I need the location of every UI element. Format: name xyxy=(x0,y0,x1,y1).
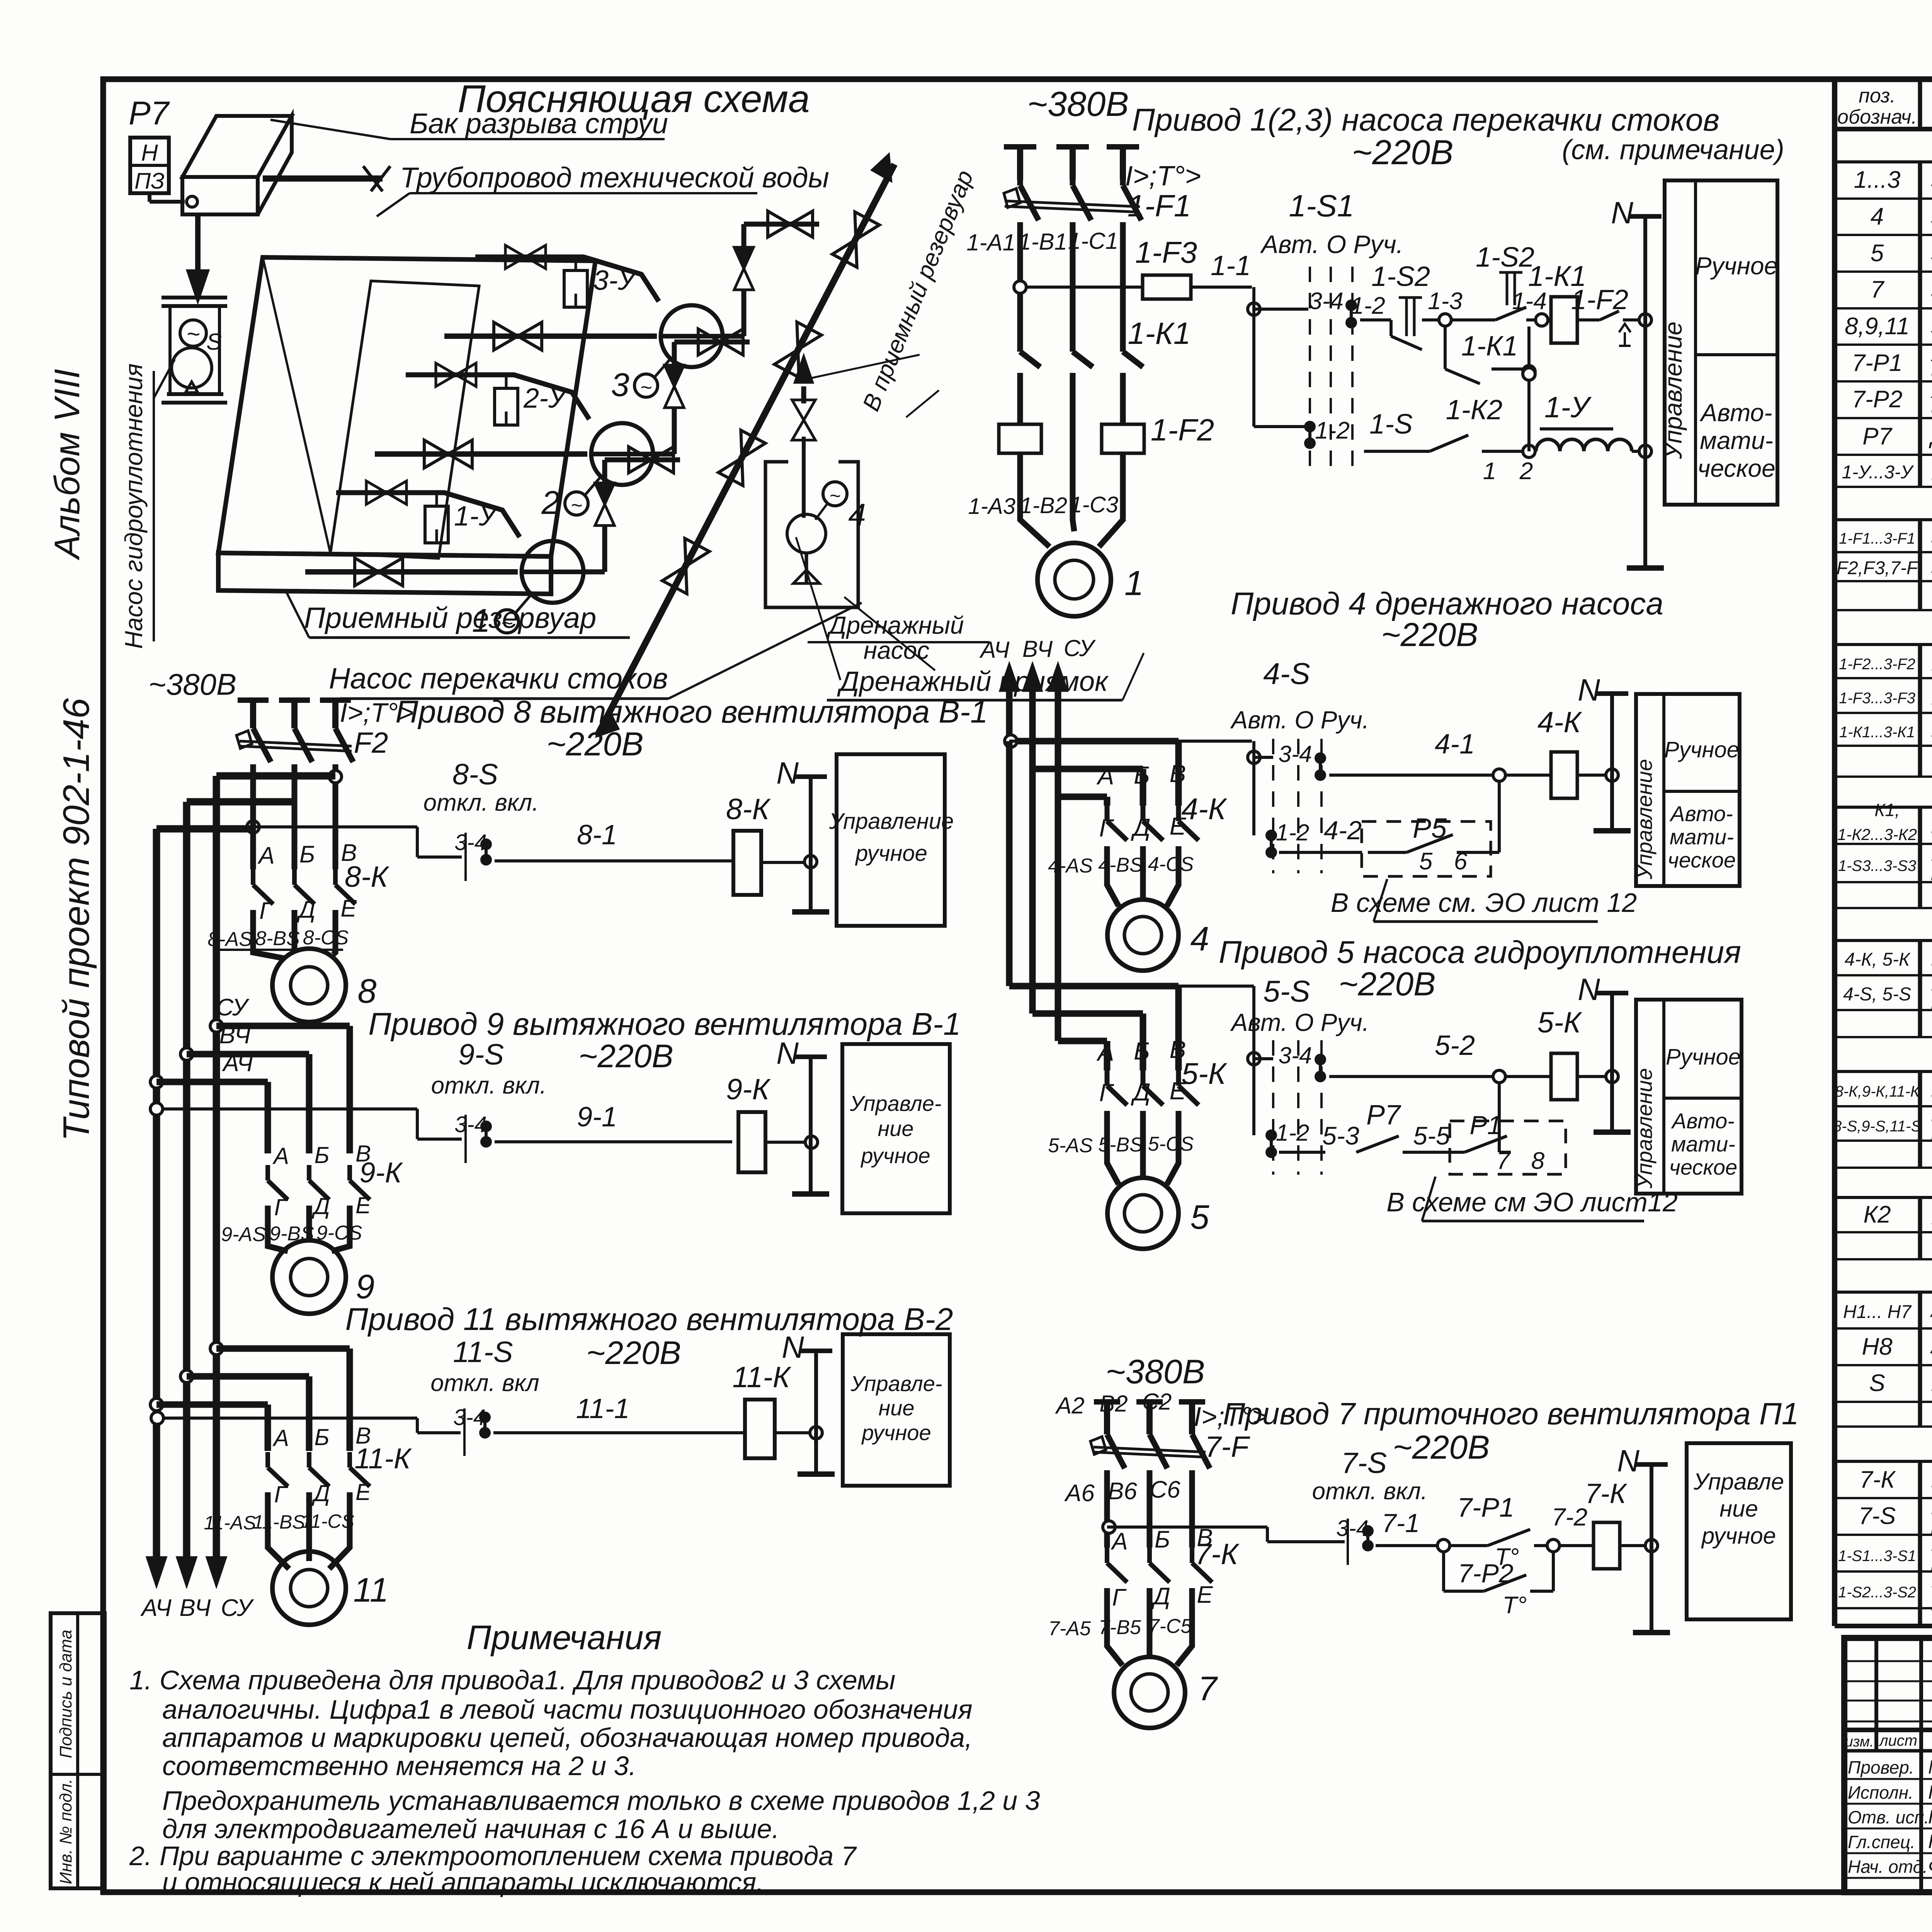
svg-text:~: ~ xyxy=(186,321,200,347)
bus AC BC CY vertical xyxy=(140,776,254,1621)
contactor contacts 1-K1 xyxy=(1020,255,1190,375)
svg-text:ческое: ческое xyxy=(1669,1155,1737,1179)
table row 1-S2...3-S2 xyxy=(1838,1564,1932,1616)
phase labels 1-A1 1-B1 1-C1 xyxy=(966,228,1118,255)
svg-text:С6: С6 xyxy=(1150,1476,1180,1503)
N line privod 11 xyxy=(782,1330,835,1474)
privod 4 power feed xyxy=(1005,715,1179,806)
svg-text:Е: Е xyxy=(355,1479,371,1505)
table row 1-F1...3-F1 xyxy=(1839,522,1932,551)
svg-text:2: 2 xyxy=(541,485,560,521)
svg-text:и относящиеся к ней аппара: и относящиеся к ней аппараты исключаются… xyxy=(162,1867,764,1897)
motor 8 leads xyxy=(207,910,349,958)
breaker F2 xyxy=(236,697,414,806)
svg-text:Н8: Н8 xyxy=(1862,1333,1893,1360)
svg-text:Б: Б xyxy=(1134,761,1150,789)
svg-text:7-А5: 7-А5 xyxy=(1048,1617,1091,1640)
svg-text:~220В: ~220В xyxy=(1338,966,1435,1003)
svg-text:1-S2: 1-S2 xyxy=(1476,242,1534,273)
timing contact 1-K2 and solenoid 1-U xyxy=(1364,368,1651,485)
svg-text:7-К: 7-К xyxy=(1585,1478,1628,1509)
svg-text:Д: Д xyxy=(296,896,316,923)
svg-text:Управле-: Управле- xyxy=(849,1091,941,1116)
svg-text:Д: Д xyxy=(1131,1078,1150,1106)
privod 5 power feed xyxy=(1009,741,1179,1070)
table row Р7 xyxy=(1862,422,1932,452)
breaker 7-F xyxy=(1090,1401,1268,1497)
svg-text:7: 7 xyxy=(1198,1669,1218,1708)
svg-text:1-F3...3-F3: 1-F3...3-F3 xyxy=(1839,690,1915,707)
svg-text:1-S2...3-S2: 1-S2...3-S2 xyxy=(1838,1584,1916,1601)
wire 7-1 and thermal contacts xyxy=(1376,1492,1592,1619)
svg-text:Д: Д xyxy=(1151,1583,1170,1610)
svg-text:~380В: ~380В xyxy=(1027,85,1129,124)
table row S xyxy=(1869,1367,1932,1401)
table row 4-К, 5-К xyxy=(1845,944,1932,973)
table row F2,F3,7-F xyxy=(1837,553,1932,582)
svg-text:СУ: СУ xyxy=(221,1595,254,1621)
pump 2 xyxy=(541,423,653,521)
svg-text:9-S: 9-S xyxy=(458,1038,504,1071)
privod 8 phase supply xyxy=(238,700,351,728)
svg-text:4-1: 4-1 xyxy=(1435,729,1475,760)
svg-text:Е: Е xyxy=(340,895,357,922)
wire 9-1 xyxy=(495,1102,732,1142)
svg-text:1-2: 1-2 xyxy=(1350,293,1385,319)
N line privod 5 xyxy=(1578,972,1631,1132)
switch 11-S xyxy=(151,1405,491,1456)
switch 7-S xyxy=(1103,1447,1427,1565)
aux contact 1-K1 xyxy=(1445,327,1535,384)
coil 7-K xyxy=(1585,1478,1658,1569)
svg-text:N: N xyxy=(782,1330,804,1364)
table row 5 xyxy=(1871,231,1932,275)
svg-text:Авт. О Руч.: Авт. О Руч. xyxy=(1260,230,1403,259)
svg-text:11-S: 11-S xyxy=(453,1336,513,1369)
svg-text:откл. вкл.: откл. вкл. xyxy=(423,789,539,816)
svg-text:4-2: 4-2 xyxy=(1324,816,1362,845)
svg-text:Педан: Педан xyxy=(1928,1781,1932,1803)
svg-text:1-F1...3-F1: 1-F1...3-F1 xyxy=(1839,530,1915,547)
privod 4 title xyxy=(1231,586,1663,653)
riser to receiving reservoir xyxy=(597,155,895,736)
svg-text:Р7: Р7 xyxy=(1862,423,1893,450)
svg-text:А: А xyxy=(257,842,274,869)
svg-text:4-К, 5-К: 4-К, 5-К xyxy=(1845,949,1911,970)
svg-text:1-С1: 1-С1 xyxy=(1068,228,1118,254)
svg-text:Трубопровод технической воды: Трубопровод технической воды xyxy=(400,162,829,194)
svg-text:Авт. О Руч.: Авт. О Руч. xyxy=(1230,706,1369,734)
privod 1 title xyxy=(1027,85,1784,172)
reservoir label xyxy=(286,591,630,638)
solenoid valve 2-У xyxy=(406,363,589,425)
svg-text:~: ~ xyxy=(501,612,513,634)
svg-text:ВЧ: ВЧ xyxy=(180,1595,211,1621)
N line privod 1 xyxy=(1611,196,1664,568)
coil 5-K xyxy=(1505,1006,1618,1100)
svg-text:7-Р1: 7-Р1 xyxy=(1457,1492,1514,1522)
contactor contacts 9-K xyxy=(268,1141,403,1220)
svg-text:(см. примечание): (см. примечание) xyxy=(1562,134,1784,165)
table row 1-F2...3-F2 xyxy=(1839,641,1932,683)
bus tap labels privod 9 xyxy=(216,994,253,1077)
thermal relay 1-F2 xyxy=(999,373,1214,479)
privod 11 title xyxy=(345,1302,953,1396)
bus arrows to privod 4/5 xyxy=(979,635,1096,715)
notes text xyxy=(129,1665,1040,1897)
motor 1 xyxy=(1020,479,1144,616)
relay contacts P7 P1 xyxy=(1279,1083,1566,1174)
svg-text:изм.: изм. xyxy=(1845,1734,1874,1750)
svg-text:~: ~ xyxy=(571,494,582,517)
svg-text:1-2: 1-2 xyxy=(1276,820,1310,845)
pump 1 xyxy=(472,541,583,639)
svg-text:5-S: 5-S xyxy=(1263,974,1310,1008)
table row 7 xyxy=(1871,268,1932,312)
svg-text:Ручное: Ручное xyxy=(1666,1044,1741,1070)
svg-text:1-У: 1-У xyxy=(1544,391,1592,424)
svg-text:А: А xyxy=(272,1143,289,1169)
svg-text:Дренажный: Дренажный xyxy=(827,611,964,639)
hydro pump label xyxy=(120,359,175,649)
svg-text:СУ: СУ xyxy=(1064,635,1096,661)
svg-text:В6: В6 xyxy=(1108,1478,1137,1505)
selector 4-S xyxy=(1009,656,1369,873)
svg-text:~220В: ~220В xyxy=(1352,133,1454,172)
svg-text:Р7: Р7 xyxy=(129,95,170,132)
svg-text:5: 5 xyxy=(1419,848,1433,875)
svg-text:4-К: 4-К xyxy=(1537,706,1583,739)
svg-text:8-1: 8-1 xyxy=(577,820,617,850)
svg-text:5: 5 xyxy=(1190,1198,1210,1236)
svg-text:5-2: 5-2 xyxy=(1435,1030,1475,1061)
table row 8-К,9-К,11-К xyxy=(1835,1075,1932,1104)
svg-text:ние: ние xyxy=(1719,1496,1758,1522)
svg-text:4: 4 xyxy=(1871,203,1884,230)
contactor contacts 11-K xyxy=(268,1423,412,1507)
svg-text:7-F: 7-F xyxy=(1205,1430,1250,1463)
svg-text:Б: Б xyxy=(299,841,315,868)
svg-text:1-К1: 1-К1 xyxy=(1461,331,1518,362)
svg-text:Привод 5 насоса гидроуплотне: Привод 5 насоса гидроуплотнения xyxy=(1219,935,1741,970)
svg-text:Е: Е xyxy=(1170,812,1187,840)
svg-text:7-2: 7-2 xyxy=(1552,1503,1588,1531)
privod 7 title xyxy=(1106,1352,1799,1466)
svg-text:Привод 8 вытяжного вентилято: Привод 8 вытяжного вентилятора В-1 xyxy=(395,694,988,730)
svg-text:9-АS: 9-АS xyxy=(221,1223,266,1246)
svg-text:11-К: 11-К xyxy=(733,1361,792,1394)
N line privod 9 xyxy=(776,1036,829,1194)
discharge pipe pump 3 xyxy=(723,211,819,336)
wire 4-1 xyxy=(1329,729,1505,781)
parts table xyxy=(1835,79,1932,1626)
svg-text:Д: Д xyxy=(311,1480,330,1506)
svg-text:А6: А6 xyxy=(1064,1480,1095,1507)
table row 8-S,9-S,11-S xyxy=(1833,1102,1932,1145)
svg-text:Казаров: Казаров xyxy=(1928,1831,1932,1852)
hydro seal pump unit xyxy=(162,298,227,403)
table row 1-S3...3-S3 xyxy=(1838,841,1932,885)
svg-text:6: 6 xyxy=(1454,848,1468,875)
svg-text:N: N xyxy=(1617,1444,1639,1478)
svg-text:Примечания: Примечания xyxy=(467,1618,662,1656)
svg-text:8-К: 8-К xyxy=(726,793,771,826)
svg-text:8-К: 8-К xyxy=(345,861,390,893)
svg-text:I>;Т°>: I>;Т°> xyxy=(340,697,413,728)
svg-text:Е: Е xyxy=(1170,1077,1187,1105)
table row 1-У...3-У xyxy=(1842,449,1932,493)
svg-text:Г: Г xyxy=(259,898,274,924)
control box privod 7 xyxy=(1687,1443,1791,1619)
control box privod 4 xyxy=(1632,694,1740,886)
table row 1-К1...3-К1 xyxy=(1839,715,1932,745)
svg-text:4: 4 xyxy=(848,497,866,532)
svg-text:I>;Т°>: I>;Т°> xyxy=(1194,1401,1267,1432)
svg-text:1-А3: 1-А3 xyxy=(968,494,1015,519)
svg-text:11-АS: 11-АS xyxy=(204,1512,256,1534)
svg-text:1-К2...3-К2: 1-К2...3-К2 xyxy=(1837,825,1917,844)
privod 9 title xyxy=(368,1007,961,1099)
svg-text:Авт. О Руч.: Авт. О Руч. xyxy=(1230,1009,1369,1036)
svg-text:~380В: ~380В xyxy=(148,667,236,701)
svg-text:аппаратов и маркировки цепей,: аппаратов и маркировки цепей, обозначающ… xyxy=(162,1723,973,1753)
privod 4 contactor contacts 4-K xyxy=(1096,760,1228,848)
svg-text:1-У: 1-У xyxy=(454,501,499,532)
svg-text:Гл.спец.: Гл.спец. xyxy=(1848,1832,1915,1852)
see sheet note 5 xyxy=(1386,1177,1678,1221)
svg-text:1-К2: 1-К2 xyxy=(1446,395,1503,425)
table row К1,|1-К2...3-К2 xyxy=(1837,800,1932,844)
drainage pit xyxy=(765,462,858,607)
svg-text:откл. вкл.: откл. вкл. xyxy=(1312,1478,1428,1505)
svg-text:3-4: 3-4 xyxy=(454,830,487,855)
table row Н1... Н7 xyxy=(1843,1294,1932,1328)
svg-text:3-У: 3-У xyxy=(593,265,638,296)
svg-text:1-У...3-У: 1-У...3-У xyxy=(1842,462,1914,483)
svg-text:А2: А2 xyxy=(1055,1393,1084,1418)
svg-text:мати-: мати- xyxy=(1700,427,1773,454)
svg-text:А: А xyxy=(1096,762,1114,790)
table row 7-Р1 xyxy=(1852,345,1932,382)
table row 1-F3...3-F3 xyxy=(1839,679,1932,713)
svg-text:откл. вкл.: откл. вкл. xyxy=(431,1072,547,1099)
svg-text:Отв. исп.: Отв. исп. xyxy=(1848,1807,1929,1827)
svg-text:3-4: 3-4 xyxy=(1309,288,1344,315)
motor 9 leads xyxy=(221,1206,362,1251)
svg-text:Т°: Т° xyxy=(1503,1592,1527,1619)
svg-text:1-S2: 1-S2 xyxy=(1371,261,1430,292)
bottom-left inventory strip xyxy=(51,1613,105,1888)
svg-text:ческое: ческое xyxy=(1668,848,1736,872)
svg-text:7-С5: 7-С5 xyxy=(1148,1615,1192,1638)
svg-text:Авто-: Авто- xyxy=(1699,399,1772,427)
svg-text:Насос гидроуплотнения: Насос гидроуплотнения xyxy=(120,364,148,649)
svg-text:1-S1...3-S1: 1-S1...3-S1 xyxy=(1838,1548,1916,1565)
svg-text:Пономарева: Пономарева xyxy=(1928,1806,1932,1828)
contactor contacts 8-K xyxy=(253,806,389,924)
pump 3 xyxy=(611,305,723,403)
svg-text:1-А1: 1-А1 xyxy=(966,230,1015,255)
control box privod 1 xyxy=(1659,180,1778,505)
svg-text:Б: Б xyxy=(314,1424,329,1450)
svg-text:8-S,9-S,11-S: 8-S,9-S,11-S xyxy=(1833,1118,1922,1135)
motor 11 leads xyxy=(204,1492,354,1569)
svg-text:1...3: 1...3 xyxy=(1854,167,1901,193)
svg-text:4-К: 4-К xyxy=(1181,792,1227,826)
contactor contacts 7-K xyxy=(1107,1524,1240,1611)
tank (bak razryva strui) xyxy=(182,116,292,214)
svg-text:3-4: 3-4 xyxy=(454,1112,487,1137)
motor leads labels xyxy=(968,492,1118,519)
table row К2 xyxy=(1863,1193,1932,1236)
svg-text:Н: Н xyxy=(141,140,158,166)
svg-text:~220В: ~220В xyxy=(546,726,643,763)
bus taps privod 9 xyxy=(150,1020,350,1153)
svg-text:Г: Г xyxy=(1112,1584,1127,1611)
svg-text:Инв. № подл.: Инв. № подл. xyxy=(56,1779,75,1884)
svg-text:11-К: 11-К xyxy=(354,1442,412,1475)
svg-text:7-Р2: 7-Р2 xyxy=(1852,386,1903,413)
motor 4 leads xyxy=(1048,846,1194,906)
svg-text:Управле: Управле xyxy=(1693,1469,1784,1495)
svg-text:~220В: ~220В xyxy=(1381,616,1478,653)
svg-text:11-ВS: 11-ВS xyxy=(253,1511,305,1533)
table header xyxy=(1837,78,1932,134)
svg-text:I>;Т°>: I>;Т°> xyxy=(1125,161,1201,192)
svg-text:Г: Г xyxy=(274,1481,289,1507)
svg-text:N: N xyxy=(776,756,799,790)
svg-text:~220В: ~220В xyxy=(586,1335,681,1371)
svg-text:Е: Е xyxy=(355,1192,371,1218)
coil 8-K xyxy=(726,793,817,895)
privod 5 contactor contacts 5-K xyxy=(1096,1036,1228,1113)
svg-text:Исполн.: Исполн. xyxy=(1848,1782,1913,1803)
svg-text:1-К1: 1-К1 xyxy=(1128,316,1191,350)
svg-text:1-С3: 1-С3 xyxy=(1070,492,1118,517)
switch 8-S xyxy=(253,758,539,881)
svg-text:8: 8 xyxy=(1531,1148,1545,1174)
svg-text:1-2: 1-2 xyxy=(1276,1120,1310,1146)
control box privod 8 xyxy=(829,754,954,926)
control box privod 5 xyxy=(1632,1000,1742,1194)
N line privod 4 xyxy=(1578,673,1631,831)
svg-text:Г: Г xyxy=(1099,814,1114,842)
N line privod 7 xyxy=(1617,1444,1670,1633)
discharge pipe pump 1 xyxy=(583,447,680,572)
bus feed links privod 8 xyxy=(156,776,335,829)
solenoid valve 3-У xyxy=(475,245,659,307)
svg-text:9-К: 9-К xyxy=(726,1073,771,1106)
motor 8 xyxy=(272,949,377,1022)
svg-text:В: В xyxy=(1170,760,1186,787)
wire 8-1 xyxy=(495,820,733,861)
table row Н8 xyxy=(1862,1330,1932,1364)
svg-text:СУ: СУ xyxy=(216,994,250,1021)
bus taps privod 11 xyxy=(150,1342,350,1451)
svg-text:Бак разрыва струи: Бак разрыва струи xyxy=(410,107,668,139)
svg-text:Г: Г xyxy=(274,1194,289,1220)
svg-text:ручное: ручное xyxy=(855,841,927,866)
svg-text:1-F1: 1-F1 xyxy=(1128,189,1191,223)
svg-text:откл. вкл: откл. вкл xyxy=(430,1370,539,1396)
svg-text:АЧ: АЧ xyxy=(979,637,1010,663)
svg-text:~220В: ~220В xyxy=(578,1038,673,1074)
svg-text:Г: Г xyxy=(1099,1079,1114,1107)
svg-text:1-S3...3-S3: 1-S3...3-S3 xyxy=(1838,857,1916,874)
svg-text:1-S: 1-S xyxy=(1369,409,1413,440)
receiving reservoir slab xyxy=(218,257,595,594)
svg-text:4-S: 4-S xyxy=(1263,656,1310,690)
motor 5 xyxy=(1107,1178,1210,1249)
svg-text:Предохранитель устанавливаетс: Предохранитель устанавливается только в … xyxy=(162,1786,1040,1816)
svg-text:поз.: поз. xyxy=(1859,85,1896,107)
svg-text:~: ~ xyxy=(829,485,840,507)
svg-text:5-К: 5-К xyxy=(1537,1006,1583,1039)
solenoid valve 1-У xyxy=(336,481,520,543)
wire 11-1 xyxy=(493,1393,744,1433)
sidebar project label xyxy=(56,698,97,1141)
table row 1-S1...3-S1 xyxy=(1838,1531,1932,1575)
svg-text:5: 5 xyxy=(1871,240,1884,267)
svg-text:11-1: 11-1 xyxy=(576,1393,630,1424)
svg-text:N: N xyxy=(1578,972,1600,1007)
svg-text:5-СS: 5-СS xyxy=(1148,1133,1194,1155)
table row 7-Р2 xyxy=(1852,382,1932,418)
svg-text:9-1: 9-1 xyxy=(577,1102,617,1133)
control chain 1 xyxy=(1350,242,1651,350)
svg-text:Альбом VIII: Альбом VIII xyxy=(48,369,87,560)
svg-text:ние: ние xyxy=(878,1396,914,1420)
svg-text:для электродвигателей начина: для электродвигателей начиная с 16 А и в… xyxy=(162,1814,779,1844)
svg-text:Дренажный приямок: Дренажный приямок xyxy=(837,666,1109,697)
selector 5-S xyxy=(1009,974,1369,1175)
control box privod 11 xyxy=(843,1334,950,1486)
table row 7-S xyxy=(1859,1495,1932,1538)
svg-text:8-К,9-К,11-К: 8-К,9-К,11-К xyxy=(1835,1083,1920,1100)
svg-text:АЧ: АЧ xyxy=(140,1595,172,1621)
svg-text:4-S, 5-S: 4-S, 5-S xyxy=(1843,984,1911,1005)
svg-text:1-F3: 1-F3 xyxy=(1135,235,1197,269)
relay contact P5 in dashed box xyxy=(1279,781,1499,876)
svg-text:7: 7 xyxy=(1871,276,1885,303)
svg-text:5-К: 5-К xyxy=(1181,1056,1227,1090)
svg-text:9-К: 9-К xyxy=(359,1156,403,1189)
svg-text:8,9,11: 8,9,11 xyxy=(1845,313,1910,340)
svg-text:~220В: ~220В xyxy=(1393,1429,1490,1466)
svg-text:8-СS: 8-СS xyxy=(303,927,349,949)
svg-text:S: S xyxy=(1869,1370,1885,1396)
wire 5-2 xyxy=(1329,1030,1505,1083)
privod 8 title xyxy=(148,667,988,763)
svg-text:А: А xyxy=(1096,1038,1114,1066)
svg-text:К1,: К1, xyxy=(1874,800,1900,820)
switch 9-S xyxy=(150,1103,492,1163)
svg-text:S: S xyxy=(206,329,222,355)
svg-text:8-S: 8-S xyxy=(452,758,498,791)
svg-text:Е: Е xyxy=(1197,1582,1213,1608)
svg-text:ВЧ: ВЧ xyxy=(1022,636,1053,662)
svg-text:Б: Б xyxy=(1155,1526,1170,1553)
sidebar album label xyxy=(48,369,87,560)
svg-text:Нач. отд.: Нач. отд. xyxy=(1848,1857,1928,1877)
privod 7 phase labels xyxy=(1064,1476,1192,1548)
svg-text:2-У: 2-У xyxy=(523,383,568,414)
svg-text:1-В2: 1-В2 xyxy=(1020,493,1067,518)
table row 8,9,11 xyxy=(1845,305,1932,348)
svg-text:1. Схема приведена для привода: 1. Схема приведена для привода1. Для при… xyxy=(129,1665,895,1695)
svg-text:Р7: Р7 xyxy=(1366,1100,1401,1131)
privod 1 phase supply xyxy=(1004,147,1139,180)
